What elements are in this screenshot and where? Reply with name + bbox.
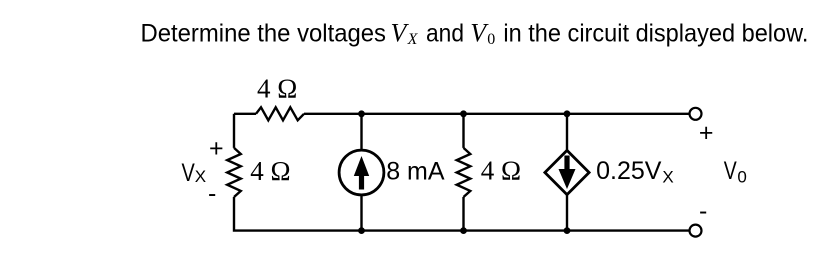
svg-text:4 Ω: 4 Ω bbox=[481, 156, 521, 186]
title text bbox=[141, 18, 809, 48]
svg-text:V: V bbox=[724, 157, 737, 185]
wire R3 column bbox=[462, 114, 464, 231]
svg-text:+: + bbox=[699, 119, 714, 147]
plus sign Vx bbox=[209, 135, 224, 163]
svg-text:and: and bbox=[426, 19, 464, 47]
node A top current source junction bbox=[358, 110, 365, 117]
svg-text:X: X bbox=[195, 167, 206, 186]
wire top rail bbox=[234, 113, 690, 115]
label R3 value 4 ohm bbox=[481, 156, 521, 186]
terminal top output bbox=[690, 108, 702, 120]
svg-text:8 mA: 8 mA bbox=[386, 157, 445, 185]
svg-text:X: X bbox=[662, 168, 673, 187]
wire left rail bbox=[234, 114, 362, 231]
node B top R3 junction bbox=[460, 110, 467, 117]
plus sign output bbox=[699, 119, 714, 147]
node D bottom current source junction bbox=[358, 227, 365, 234]
svg-text:-: - bbox=[699, 197, 707, 225]
svg-text:0.25V: 0.25V bbox=[596, 157, 662, 185]
wire bottom rail bbox=[362, 229, 690, 231]
svg-text:Determine the voltages: Determine the voltages bbox=[141, 19, 387, 47]
svg-text:X: X bbox=[407, 31, 419, 48]
label dependent source value 0.25Vx bbox=[596, 157, 674, 186]
label Vx bbox=[182, 159, 207, 187]
node E bottom R3 junction bbox=[460, 227, 467, 234]
svg-text:0: 0 bbox=[487, 31, 495, 48]
label R1 value 4 ohm bbox=[257, 73, 297, 103]
node F bottom diamond junction bbox=[564, 227, 571, 234]
label R2 value 4 ohm bbox=[250, 156, 290, 186]
minus sign output bbox=[699, 197, 707, 225]
svg-text:in the circuit displayed below: in the circuit displayed below. bbox=[503, 19, 808, 47]
svg-text:4 Ω: 4 Ω bbox=[250, 156, 290, 186]
minus sign Vx bbox=[208, 180, 216, 208]
node C top diamond junction bbox=[564, 110, 571, 117]
svg-text:+: + bbox=[209, 135, 224, 163]
svg-text:0: 0 bbox=[737, 167, 746, 186]
resistor R2 4ohm vertical (Vx) bbox=[227, 148, 241, 197]
wire dependent source column bbox=[566, 114, 568, 231]
svg-text:V: V bbox=[182, 159, 196, 187]
terminal bottom output bbox=[690, 225, 702, 237]
dependent current source U1 0.25Vx diamond bbox=[545, 150, 589, 194]
resistor R1 4ohm horizontal bbox=[256, 107, 304, 120]
svg-text:-: - bbox=[208, 180, 216, 208]
label V0 output voltage bbox=[724, 157, 747, 186]
current source I1 8mA circle bbox=[339, 150, 384, 195]
wire current source column bbox=[360, 114, 362, 231]
label I1 value 8 mA bbox=[386, 157, 445, 185]
svg-text:4 Ω: 4 Ω bbox=[257, 73, 297, 103]
resistor R3 4ohm vertical bbox=[457, 148, 471, 197]
